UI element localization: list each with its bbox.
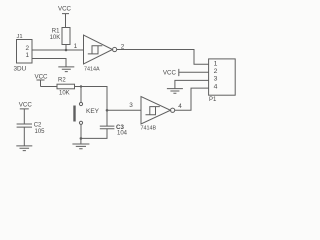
wire KEY to bottom node	[80, 124, 82, 138]
svg-text:VCC: VCC	[19, 102, 33, 109]
power VCC (top, above R1)	[58, 5, 72, 27]
svg-text:KEY: KEY	[86, 108, 100, 115]
connector J1	[14, 34, 33, 73]
svg-text:R1: R1	[52, 29, 60, 35]
capacitor C3	[100, 124, 128, 137]
svg-text:105: 105	[35, 129, 46, 135]
wire down to KEY	[80, 87, 82, 103]
svg-text:VCC: VCC	[163, 70, 177, 77]
svg-text:P1: P1	[209, 97, 217, 103]
svg-text:VCC: VCC	[58, 5, 72, 12]
wire P1 pin4 to 7414B output	[175, 88, 209, 110]
junction dot (R1 / wire)	[65, 49, 68, 52]
power VCC (at R2)	[34, 73, 57, 86]
svg-text:7414A: 7414A	[84, 67, 100, 73]
svg-text:1: 1	[214, 61, 218, 68]
svg-text:7414B: 7414B	[141, 125, 157, 131]
wire vertical net to 7414B input	[107, 109, 141, 111]
svg-text:C2: C2	[34, 122, 42, 128]
junction dot (KEY branch)	[80, 85, 82, 87]
capacitor C2	[17, 122, 46, 145]
ground (at P1 pin3)	[167, 89, 183, 94]
svg-text:1: 1	[74, 43, 78, 50]
power VCC (at P1 pin2)	[163, 69, 209, 77]
svg-text:VCC: VCC	[34, 73, 48, 80]
connector P1	[209, 59, 236, 103]
ground (below KEY)	[72, 138, 89, 148]
svg-text:R2: R2	[58, 77, 66, 83]
svg-text:2: 2	[25, 45, 29, 52]
wire 7414A output to P1 pin1	[117, 50, 209, 65]
pushbutton KEY	[75, 102, 100, 124]
ground (below J1)	[58, 67, 74, 72]
resistor R2	[57, 77, 75, 96]
wire R2 to vertical net	[75, 87, 108, 127]
svg-text:3DU: 3DU	[14, 66, 27, 73]
wire J1 pin1 to ground	[32, 59, 66, 67]
wire P1 pin3 to ground	[175, 80, 209, 88]
power VCC (above C2)	[19, 102, 33, 124]
junction dot (7414B input tap)	[106, 109, 109, 112]
svg-text:104: 104	[117, 131, 128, 137]
junction dot (bottom node)	[80, 137, 83, 140]
svg-text:10K: 10K	[59, 91, 70, 97]
ground (below C2)	[16, 146, 32, 151]
svg-text:10K: 10K	[50, 35, 61, 41]
svg-text:2: 2	[214, 68, 218, 75]
resistor R1	[50, 28, 70, 51]
svg-text:1: 1	[25, 52, 29, 59]
wire J1 pin2 to 7414A input	[32, 49, 84, 51]
svg-text:3: 3	[214, 76, 218, 83]
svg-text:4: 4	[214, 84, 218, 91]
op-amp U2 7414B schmitt inverter	[141, 97, 175, 132]
svg-text:3: 3	[129, 102, 133, 109]
op-amp U1 7414A schmitt inverter	[84, 35, 117, 73]
wire bottom node to C3	[81, 129, 107, 138]
svg-text:4: 4	[178, 103, 182, 110]
